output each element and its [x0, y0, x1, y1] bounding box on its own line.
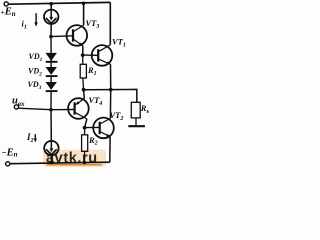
terminal uвх [14, 105, 18, 109]
svg-text:R1: R1 [87, 65, 97, 77]
svg-text:VD2: VD2 [28, 67, 42, 78]
node output junction left [82, 88, 86, 92]
wire VT2 emitter down [109, 137, 111, 162]
wire input [18, 108, 74, 110]
arrow I2 current [34, 134, 37, 142]
diode VD3 [46, 82, 58, 91]
transistor VT3 [67, 25, 88, 46]
transistor VT1 [92, 45, 113, 66]
wire VT3 emitter down [82, 46, 84, 55]
svg-text:I2: I2 [26, 132, 34, 144]
arrow i1 current [34, 13, 37, 26]
node output junction right [109, 88, 113, 92]
wire VT1 base [83, 54, 99, 56]
wire I2 top [50, 110, 52, 149]
wire VT4 emitter up [83, 90, 86, 99]
node C junction VT4c/R2/VT2b [83, 126, 87, 130]
wire VT2 base [85, 126, 100, 128]
svg-text:VT1: VT1 [112, 37, 126, 49]
wire output rail [84, 89, 137, 102]
wire diode chain top [50, 37, 52, 54]
wire I1 to node A [50, 24, 52, 37]
svg-text:R2: R2 [88, 135, 98, 147]
node bottom I2 junction [50, 161, 54, 165]
wire VD1-VD2 [50, 53, 52, 67]
svg-text:Rн: Rн [140, 103, 149, 115]
wire VT3 collector [83, 3, 85, 25]
wire I1 top stub [50, 4, 52, 17]
node uвх junction [49, 108, 53, 112]
node junction top VT3 [82, 2, 86, 6]
wire VT4 collector down [85, 119, 87, 128]
node A junction [49, 35, 53, 39]
svg-text:VT3: VT3 [86, 18, 100, 30]
resistor R1 [80, 55, 86, 90]
wire bottom rail [10, 162, 110, 164]
current source I2 [44, 141, 58, 155]
wire diode chain bottom [50, 91, 52, 110]
svg-text:−Eп: −Eп [2, 147, 18, 158]
wire I2 bottom [50, 155, 52, 163]
terminal -Eп [6, 162, 10, 166]
terminal +Eп [4, 2, 8, 6]
current source I1 [44, 10, 58, 24]
svg-text:VT4: VT4 [89, 95, 103, 107]
wire VT3 base [51, 35, 73, 38]
wire VT1 emitter down [110, 64, 112, 89]
wire VD2-VD3 [50, 76, 52, 82]
watermark avtk.ru text [46, 151, 102, 167]
wire top rail [8, 2, 110, 4]
transistor VT2 [93, 118, 114, 139]
node B junction VT3e/R1/VT1b [81, 53, 85, 57]
wire VT2 collector up [109, 90, 111, 119]
node junction top I1 [49, 2, 53, 6]
svg-text:i1: i1 [22, 19, 27, 31]
watermark avtk.ru background [43, 150, 106, 167]
svg-text:VD1: VD1 [29, 52, 43, 63]
resistor RH [128, 102, 145, 126]
resistor R2 [82, 128, 88, 163]
diode VD2 [46, 67, 58, 76]
wire VT1 collector [109, 2, 111, 44]
transistor VT4 [68, 98, 89, 119]
svg-text:VD3: VD3 [28, 80, 42, 91]
node bottom R2 junction [83, 161, 87, 165]
svg-text:uвх: uвх [12, 95, 25, 108]
diode VD1 [46, 53, 58, 62]
svg-text:+Eп: +Eп [1, 7, 16, 18]
